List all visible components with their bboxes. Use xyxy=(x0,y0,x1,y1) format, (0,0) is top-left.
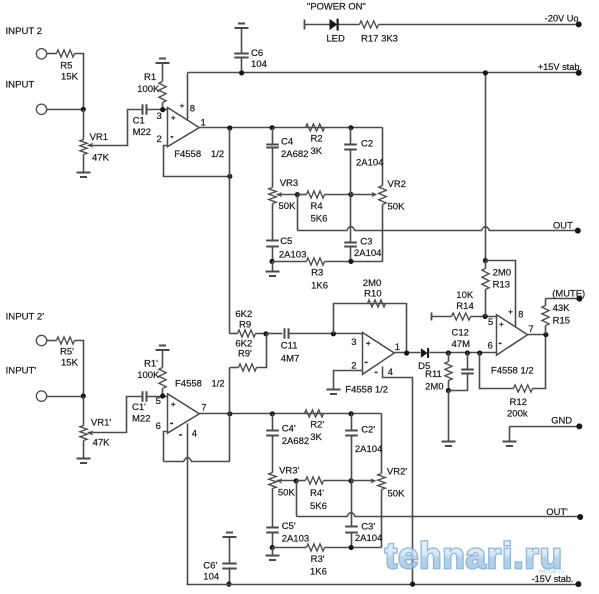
op-amp U3 F4558 1/2 xyxy=(491,315,534,377)
svg-text:tehnari.ru: tehnari.ru xyxy=(385,535,563,576)
svg-text:6: 6 xyxy=(156,421,161,432)
wire jack to R5' xyxy=(47,340,57,342)
svg-text:R4: R4 xyxy=(311,201,323,212)
svg-text:tehnari.ru: tehnari.ru xyxy=(539,570,564,576)
svg-text:47M: 47M xyxy=(452,339,471,350)
wire ground to C6 xyxy=(241,28,243,54)
wire output to feedback ch2 xyxy=(229,368,231,462)
pin 5 label U3 xyxy=(488,317,504,329)
svg-text:1: 1 xyxy=(395,342,400,353)
svg-text:-: - xyxy=(365,357,368,368)
node pin 3 junction xyxy=(160,107,165,112)
svg-text:15K: 15K xyxy=(61,72,79,83)
svg-text:43K: 43K xyxy=(553,303,571,314)
svg-text:GND: GND xyxy=(551,415,572,426)
node MUTE terminal xyxy=(552,287,585,301)
svg-text:"POWER ON": "POWER ON" xyxy=(307,1,366,12)
svg-text:+: + xyxy=(171,399,176,409)
svg-text:INPUT': INPUT' xyxy=(6,366,37,377)
svg-text:-: - xyxy=(375,367,378,378)
svg-text:INPUT 2': INPUT 2' xyxy=(6,312,45,323)
diode LED xyxy=(326,19,345,45)
svg-text:C2: C2 xyxy=(361,139,373,150)
connector INPUT 2' jack xyxy=(36,335,46,345)
svg-text:R4': R4' xyxy=(310,488,324,499)
pin 1 label xyxy=(201,117,206,128)
node pin 5 junction ch2 xyxy=(160,393,165,398)
wire VR1 wiper to C1 xyxy=(88,110,142,146)
svg-text:+: + xyxy=(171,112,176,122)
wire jack to junction xyxy=(47,109,84,111)
resistor R1 100K xyxy=(137,72,166,102)
node C6 junction xyxy=(239,70,244,75)
svg-text:C6: C6 xyxy=(251,48,263,59)
svg-text:10K: 10K xyxy=(456,290,474,301)
svg-text:R9: R9 xyxy=(239,320,251,331)
capacitor C11 4M7 xyxy=(281,328,299,364)
ground above C6' xyxy=(223,533,237,538)
svg-text:4: 4 xyxy=(192,429,197,440)
svg-text:1/2: 1/2 xyxy=(211,149,224,160)
wire jack to junction' xyxy=(47,396,84,398)
svg-text:6K2: 6K2 xyxy=(235,309,252,320)
node INPUT' label xyxy=(6,366,37,377)
node INPUT 2' label xyxy=(6,312,45,323)
wire junction to VR1 xyxy=(83,110,85,140)
capacitor C3' 2A104 xyxy=(345,481,382,548)
svg-text:C4': C4' xyxy=(282,424,296,435)
svg-text:4M7: 4M7 xyxy=(281,354,299,365)
svg-text:+: + xyxy=(180,101,185,111)
svg-text:15K: 15K xyxy=(61,357,79,368)
pin 6 label U3 xyxy=(488,338,502,351)
resistor R11 2M0 xyxy=(425,353,452,393)
svg-text:R10: R10 xyxy=(364,288,381,299)
node R4'-C2' junction xyxy=(349,478,354,483)
wire +15V rail xyxy=(188,72,579,74)
svg-text:R3: R3 xyxy=(311,267,323,278)
wire C6 to +15V rail xyxy=(241,58,243,73)
svg-text:R15: R15 xyxy=(553,315,570,326)
pin 6 label U1B xyxy=(156,418,174,432)
wire R5' to junction xyxy=(75,341,84,397)
resistor R17 3K3 xyxy=(360,21,398,45)
svg-text:C1: C1 xyxy=(133,115,145,126)
svg-text:2M0: 2M0 xyxy=(493,267,511,278)
svg-text:R3': R3' xyxy=(311,554,325,565)
pin 8 V+ stub xyxy=(180,73,196,121)
svg-text:2A682: 2A682 xyxy=(282,436,309,447)
wire OUT tap xyxy=(297,195,299,231)
svg-text:VR3': VR3' xyxy=(279,465,299,476)
node R9-R9' junction xyxy=(263,331,268,336)
capacitor C2 2A104 xyxy=(344,128,383,195)
capacitor C2' 2A104 xyxy=(345,414,382,481)
svg-text:3: 3 xyxy=(351,337,356,348)
wire pin 6 feedback xyxy=(164,432,230,462)
wire junction to VR1' xyxy=(83,397,85,426)
wire R5 to junction xyxy=(75,54,84,110)
svg-text:R2: R2 xyxy=(311,133,323,144)
capacitor C4 2A682 xyxy=(266,128,308,188)
ground at U2 pin 2 xyxy=(327,390,341,395)
ground below C5 xyxy=(266,262,280,277)
node -20V Uo terminal xyxy=(545,14,582,28)
potentiometer VR1 47K xyxy=(80,132,110,163)
node C3' bottom junction xyxy=(349,545,354,550)
wire ground to C6' xyxy=(229,538,231,564)
svg-text:VR1: VR1 xyxy=(90,132,108,143)
node R11 bottom junction xyxy=(446,388,451,393)
wire VR3' wiper xyxy=(277,480,297,482)
resistor R9 6K2 xyxy=(230,309,267,337)
wire C6' to -15V rail xyxy=(229,569,231,585)
wire pin 2 to ground xyxy=(334,371,363,390)
potentiometer VR3' 50K xyxy=(269,465,300,498)
wire VR3 wiper xyxy=(277,194,298,196)
resistor R3' 1K6 xyxy=(273,544,382,578)
resistor R14 10K xyxy=(452,290,497,320)
pin 4 V- wire ch2 xyxy=(179,424,197,585)
capacitor C12 47M xyxy=(449,328,474,391)
terminal LED anode input xyxy=(305,20,330,30)
op-amp U1 F4558 1/2 xyxy=(168,108,225,160)
svg-text:R5: R5 xyxy=(60,61,72,72)
connector INPUT 2 jack xyxy=(36,49,46,59)
svg-text:F4558 1/2: F4558 1/2 xyxy=(491,365,534,376)
svg-text:R1: R1 xyxy=(144,72,156,83)
node pin 5 junction xyxy=(483,314,488,319)
wire pin 2 feedback xyxy=(164,146,230,177)
wire R1 to pin 3 node xyxy=(162,103,164,110)
wire GND to ground xyxy=(509,427,511,442)
svg-text:R9': R9' xyxy=(238,349,252,360)
svg-text:5: 5 xyxy=(156,396,161,407)
potentiometer VR2' 50K xyxy=(378,467,408,500)
ground above R1' xyxy=(156,346,170,351)
capacitor C3 2A104 xyxy=(344,195,381,262)
pin 4 V- wire xyxy=(375,367,413,585)
svg-text:-20V Uo: -20V Uo xyxy=(545,14,579,24)
svg-text:2A104: 2A104 xyxy=(355,444,382,455)
potentiometer VR3 50K xyxy=(269,178,298,212)
wire ground to R1 xyxy=(162,64,164,82)
svg-text:F4558: F4558 xyxy=(175,379,202,390)
svg-text:1K6: 1K6 xyxy=(311,281,328,292)
svg-text:2A103: 2A103 xyxy=(282,533,309,544)
capacitor C4' 2A682 xyxy=(266,414,309,473)
node +15V branch junction xyxy=(483,70,488,75)
ground above C6 xyxy=(235,24,249,29)
resistor R4' 5K6 xyxy=(297,477,352,512)
svg-text:2: 2 xyxy=(157,134,162,145)
wire VR1' to ground xyxy=(83,441,85,459)
pin 1 label U2 xyxy=(395,342,400,353)
svg-text:7: 7 xyxy=(528,324,533,335)
node C12 top junction xyxy=(465,350,470,355)
resistor R9' 6K2 xyxy=(230,334,267,372)
wire R4' to VR2' wiper xyxy=(352,478,377,483)
node input' junction xyxy=(81,394,86,399)
ground below VR1 xyxy=(77,173,91,178)
node C4' tap xyxy=(270,411,275,416)
wire tone top right corner xyxy=(382,128,384,186)
node R11 top junction xyxy=(446,350,451,355)
svg-text:OUT': OUT' xyxy=(546,506,568,517)
ground above R1 xyxy=(156,59,170,64)
svg-text:2A104: 2A104 xyxy=(355,533,382,544)
ground below R11 xyxy=(442,442,456,447)
svg-text:C11: C11 xyxy=(281,341,298,352)
svg-text:+15V stab.: +15V stab. xyxy=(538,62,582,72)
svg-text:F4558: F4558 xyxy=(174,149,201,160)
node VR3 wiper junction xyxy=(295,192,300,197)
capacitor C1 M22 xyxy=(133,104,151,138)
svg-text:C5': C5' xyxy=(282,521,296,532)
svg-text:3K: 3K xyxy=(311,146,323,157)
resistor R5 15K xyxy=(57,50,79,83)
wire R11 to ground xyxy=(448,391,450,442)
svg-text:50K: 50K xyxy=(388,489,406,500)
svg-text:7: 7 xyxy=(201,402,206,413)
svg-text:5: 5 xyxy=(488,317,493,328)
svg-text:8: 8 xyxy=(518,310,523,321)
svg-text:F4558 1/2: F4558 1/2 xyxy=(345,384,388,395)
pin 2 label U2 xyxy=(351,357,368,371)
wire OUT rail xyxy=(298,227,578,231)
svg-text:C1': C1' xyxy=(132,402,146,413)
node U1B output junction xyxy=(227,411,232,416)
ground below GND terminal xyxy=(503,442,517,447)
svg-text:100K: 100K xyxy=(137,370,160,381)
wire R10 feedback xyxy=(334,304,407,353)
svg-text:-: - xyxy=(499,338,502,349)
svg-text:+: + xyxy=(499,319,504,329)
resistor R15 43K xyxy=(542,299,570,335)
node C5' bottom junction xyxy=(270,545,275,550)
svg-text:2A103: 2A103 xyxy=(279,250,306,261)
resistor R10 2M0 xyxy=(363,278,386,307)
resistor R12 200k xyxy=(480,335,546,420)
svg-text:3K: 3K xyxy=(310,432,322,443)
svg-text:VR2': VR2' xyxy=(387,467,407,478)
pin 2 label xyxy=(157,131,174,144)
svg-text:50K: 50K xyxy=(278,488,296,499)
node R12 branch junction xyxy=(477,350,482,355)
svg-text:R11: R11 xyxy=(425,369,442,380)
wire U3 output xyxy=(528,334,546,336)
svg-text:2A104: 2A104 xyxy=(356,158,383,169)
node feedback junction xyxy=(227,174,232,179)
svg-text:R5': R5' xyxy=(60,346,74,357)
wire U2 output xyxy=(395,352,421,354)
node pin4 -15V junction xyxy=(410,582,415,587)
svg-text:3: 3 xyxy=(157,111,162,122)
wire R1' to pin 5 node xyxy=(162,389,164,397)
svg-text:8: 8 xyxy=(190,104,195,115)
node C2' tap xyxy=(349,411,354,416)
resistor R2 3K xyxy=(306,124,325,157)
node C6' junction xyxy=(226,582,231,587)
terminal mute input xyxy=(432,313,452,321)
resistor R3 1K6 xyxy=(273,258,383,292)
pin 7 label U3 xyxy=(528,324,533,335)
svg-text:2A104: 2A104 xyxy=(354,248,381,259)
connector INPUT jack xyxy=(36,104,46,114)
node C3 bottom junction xyxy=(348,259,353,264)
wire VR1' wiper to C1' xyxy=(88,397,142,433)
wire junction to C11 xyxy=(267,333,283,335)
node U3 output junction xyxy=(543,332,548,337)
resistor R4 5K6 xyxy=(298,191,351,225)
potentiometer VR1' 47K xyxy=(80,418,111,449)
wire -15V rail xyxy=(187,584,579,586)
wire jack to R5 xyxy=(47,53,57,55)
ground below C5' xyxy=(266,548,280,561)
node GND terminal xyxy=(551,415,582,430)
wire pin 8 branch xyxy=(486,261,524,327)
watermark tehnari.ru xyxy=(385,535,564,576)
svg-text:LED: LED xyxy=(326,33,345,44)
node R13 top junction xyxy=(483,258,488,263)
resistor R5' 15K xyxy=(57,337,79,368)
svg-text:-: - xyxy=(170,131,173,142)
node U2 output junction xyxy=(404,350,409,355)
resistor R13 2M0 xyxy=(482,261,511,317)
node OUT terminal xyxy=(553,219,581,233)
wire VR2 to bottom xyxy=(382,205,384,262)
svg-text:47K: 47K xyxy=(93,437,111,448)
svg-text:1K6: 1K6 xyxy=(310,567,327,578)
node INPUT label xyxy=(6,80,35,91)
svg-text:M22: M22 xyxy=(132,413,150,424)
svg-text:VR2: VR2 xyxy=(388,179,406,190)
svg-text:2A682: 2A682 xyxy=(281,149,308,160)
wire ground to R1' xyxy=(162,351,164,368)
wire VR2' to bottom xyxy=(381,490,383,548)
node POWER-ON label xyxy=(307,1,366,12)
node INPUT 2 label xyxy=(6,26,43,37)
node OUT' terminal xyxy=(546,506,583,520)
ground below VR1' xyxy=(77,459,91,464)
wire output down to R9 xyxy=(229,129,231,334)
svg-text:VR3: VR3 xyxy=(280,178,298,189)
pin 3 label U2 xyxy=(351,337,370,348)
capacitor C1' M22 xyxy=(132,391,150,424)
svg-text:C3: C3 xyxy=(360,236,372,247)
svg-text:VR1': VR1' xyxy=(91,418,111,429)
wire GND terminal line xyxy=(510,426,580,428)
wire U1 output xyxy=(200,127,383,129)
svg-text:1/2: 1/2 xyxy=(212,379,225,390)
wire C11 to pin 3 xyxy=(290,333,363,335)
wire C1' to pin 5 xyxy=(148,396,168,398)
svg-text:50K: 50K xyxy=(279,201,297,212)
op-amp U2 F4558 1/2 xyxy=(345,333,394,396)
connector INPUT' jack xyxy=(36,391,46,401)
svg-text:R2': R2' xyxy=(310,420,324,431)
svg-text:R14: R14 xyxy=(456,301,473,312)
node U1 output junction xyxy=(227,125,232,130)
svg-text:-: - xyxy=(179,429,182,440)
svg-text:2M0: 2M0 xyxy=(425,381,443,392)
svg-text:R12: R12 xyxy=(510,397,527,408)
svg-text:C3': C3' xyxy=(361,522,375,533)
capacitor C6 104 xyxy=(234,48,267,70)
svg-text:C5: C5 xyxy=(280,236,292,247)
pin 5 label U1B xyxy=(156,396,176,409)
svg-text:5K6: 5K6 xyxy=(310,501,327,512)
wire C1 to pin 3 xyxy=(148,109,168,111)
svg-text:R17 3K3: R17 3K3 xyxy=(361,33,398,44)
potentiometer VR2 50K xyxy=(379,179,406,213)
svg-text:INPUT 2: INPUT 2 xyxy=(6,26,43,37)
svg-text:R1': R1' xyxy=(144,359,158,370)
svg-text:5K6: 5K6 xyxy=(311,214,328,225)
node VR3' wiper junction xyxy=(294,478,299,483)
wire tone top right corner ch2 xyxy=(381,414,383,474)
svg-text:+: + xyxy=(366,338,371,348)
svg-text:104: 104 xyxy=(203,572,219,583)
svg-text:R13: R13 xyxy=(493,280,510,291)
node R4-C2 junction xyxy=(348,192,353,197)
svg-text:(MUTE): (MUTE) xyxy=(552,287,585,298)
node C5 bottom junction xyxy=(270,259,275,264)
wire LED to R17 xyxy=(339,24,360,26)
svg-text:100K: 100K xyxy=(137,84,160,95)
wire -20V rail xyxy=(379,24,579,26)
capacitor C6' 104 xyxy=(203,560,236,582)
svg-text:M22: M22 xyxy=(133,127,151,138)
node C2 tap xyxy=(348,125,353,130)
node mixer input junction xyxy=(331,331,336,336)
wire U1B output xyxy=(200,413,382,415)
wire OUT' rail xyxy=(297,513,581,517)
wire +15V drop xyxy=(485,73,487,261)
svg-text:C6': C6' xyxy=(203,560,217,571)
node C4 tap xyxy=(270,125,275,130)
pin 7 label U1B xyxy=(201,402,206,413)
op-amp U1B F4558 1/2 xyxy=(168,379,225,434)
node input junction xyxy=(81,107,86,112)
svg-text:50K: 50K xyxy=(388,202,406,213)
node +15V stab terminal xyxy=(538,62,582,76)
diode D5 xyxy=(418,348,430,372)
wire D5 to U3 pin 6 xyxy=(430,352,497,354)
capacitor C5' 2A103 xyxy=(266,489,309,548)
svg-text:+: + xyxy=(508,306,513,316)
svg-text:-: - xyxy=(170,418,173,429)
capacitor C5 2A103 xyxy=(266,204,306,262)
svg-text:OUT: OUT xyxy=(553,219,573,230)
resistor R1' 100K xyxy=(137,359,166,389)
node -15V stab terminal xyxy=(532,574,582,587)
pin 3 label xyxy=(157,111,176,122)
wire MUTE line xyxy=(546,298,580,300)
svg-text:C2': C2' xyxy=(361,424,375,435)
wire R4 to VR2 wiper xyxy=(351,192,378,197)
svg-text:1: 1 xyxy=(201,117,206,128)
svg-text:6: 6 xyxy=(488,340,493,351)
svg-text:104: 104 xyxy=(251,59,267,70)
wire OUT' tap xyxy=(296,481,298,517)
svg-text:47K: 47K xyxy=(92,152,110,163)
svg-text:200k: 200k xyxy=(507,408,528,419)
svg-text:4: 4 xyxy=(388,367,393,378)
wire VR1 to ground xyxy=(83,155,85,173)
svg-text:INPUT: INPUT xyxy=(6,80,35,91)
svg-text:C4: C4 xyxy=(281,137,293,148)
